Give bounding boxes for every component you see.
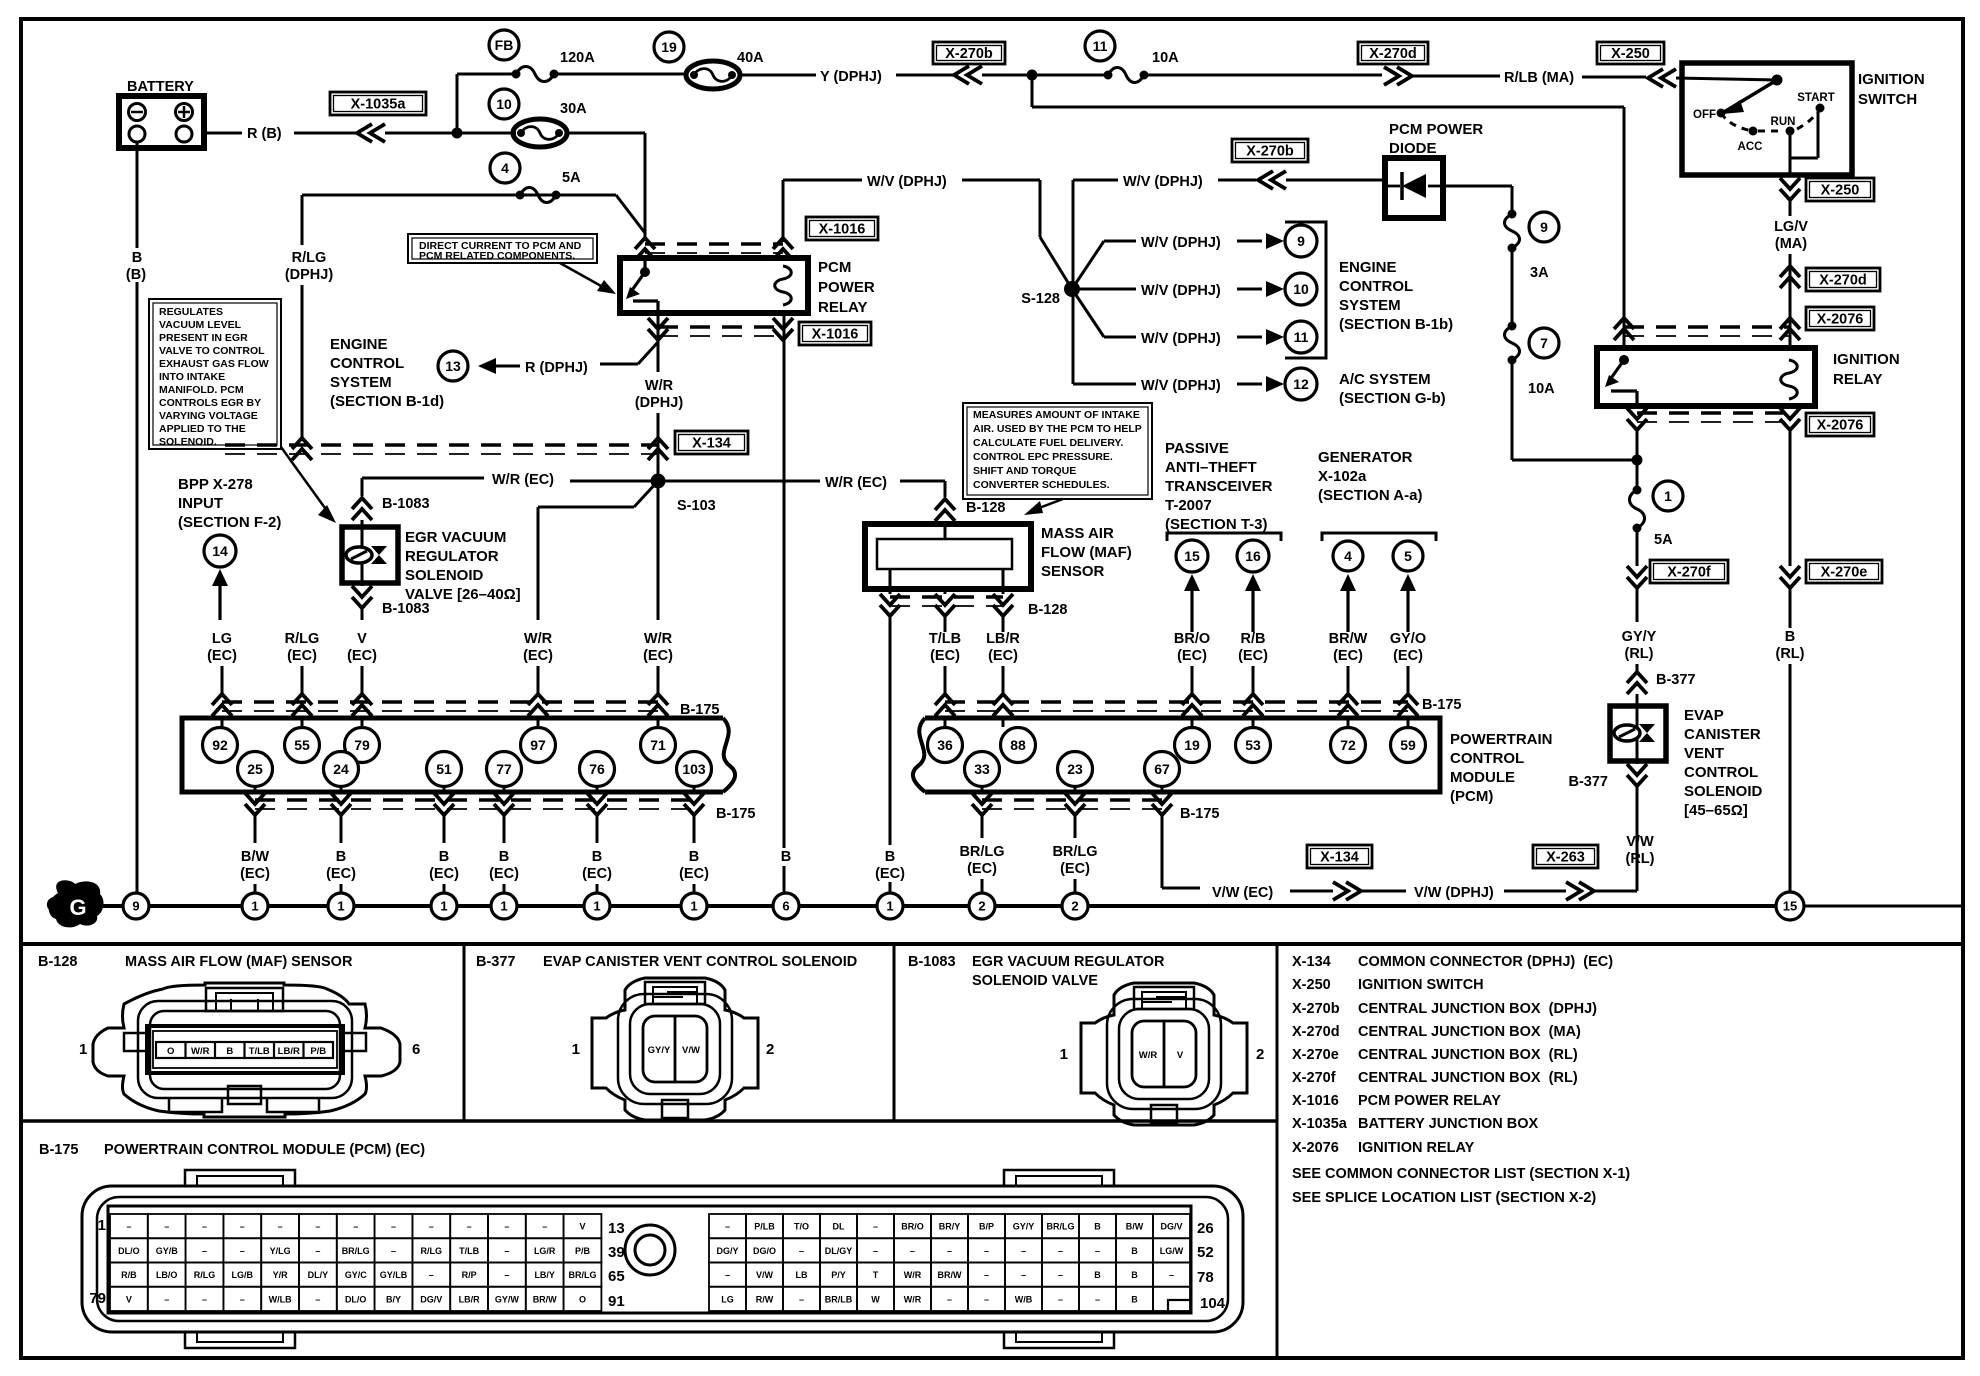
svg-text:33: 33 (974, 761, 990, 777)
wire label B (EC) at 504 (489, 849, 519, 882)
svg-text:(SECTION F-2): (SECTION F-2) (178, 514, 281, 531)
svg-text:GENERATOR: GENERATOR (1318, 449, 1413, 466)
svg-text:POWER: POWER (818, 279, 875, 296)
B-128 panel header (38, 954, 353, 970)
wire evap out (1569, 761, 1648, 828)
S-128 branch to 11 (1072, 289, 1317, 353)
svg-text:BR/W: BR/W (1329, 631, 1368, 647)
pin 92 (203, 728, 238, 763)
wire R (B) (204, 124, 516, 142)
svg-text:CENTRAL JUNCTION BOX (RL): CENTRAL JUNCTION BOX (RL) (1358, 1047, 1578, 1063)
wire out of B-175 at 597 (587, 787, 607, 843)
pin 23 (1058, 752, 1093, 787)
svg-text:LG/R: LG/R (534, 1246, 556, 1256)
svg-text:CANISTER: CANISTER (1684, 726, 1761, 743)
svg-text:–: – (240, 1222, 245, 1232)
wire label B (EC) at 444 (429, 849, 459, 882)
svg-text:ANTI–THEFT: ANTI–THEFT (1165, 459, 1257, 476)
svg-text:–: – (984, 1270, 989, 1280)
pin 19 (1175, 728, 1210, 763)
wire B coil to rail (783, 313, 786, 893)
svg-text:(EC): (EC) (1393, 648, 1423, 664)
wire label GY/O (EC) at 1408 (1390, 631, 1426, 664)
ignition relay dashed top (1614, 318, 1790, 340)
svg-text:(SECTION T-3): (SECTION T-3) (1165, 516, 1268, 533)
panel row divider (21, 1119, 1277, 1123)
pin 103 (677, 752, 712, 787)
svg-text:P/Y: P/Y (831, 1270, 846, 1280)
svg-text:W/R: W/R (904, 1270, 922, 1280)
svg-text:BR/W: BR/W (938, 1270, 962, 1280)
wire B RL (1776, 560, 1805, 893)
svg-text:10: 10 (496, 96, 512, 112)
svg-text:REGULATOR: REGULATOR (405, 548, 499, 565)
B-175 PCM right box (913, 718, 1440, 792)
wire label BR/LG at 1075 (1052, 844, 1097, 877)
svg-text:X-270f: X-270f (1292, 1070, 1336, 1086)
svg-text:FLOW (MAF): FLOW (MAF) (1041, 544, 1132, 561)
wire label W/R (EC) at 538 (523, 631, 553, 664)
svg-text:VACUUM LEVEL: VACUUM LEVEL (159, 319, 242, 331)
svg-text:MASS AIR: MASS AIR (1041, 525, 1114, 542)
svg-text:P/LB: P/LB (754, 1222, 775, 1232)
B-175 top-right dashed row (945, 697, 1462, 713)
wire into B-175 at 658 (648, 666, 668, 727)
svg-text:REGULATES: REGULATES (159, 306, 223, 318)
svg-text:B: B (689, 849, 699, 865)
svg-text:Y/LG: Y/LG (270, 1246, 291, 1256)
ground symbol G (47, 880, 104, 927)
svg-text:X-270e: X-270e (1292, 1047, 1339, 1063)
B-377 connector view (572, 978, 775, 1120)
svg-text:B-377: B-377 (1569, 774, 1609, 790)
wire to rail at 444 (443, 884, 446, 893)
svg-text:55: 55 (294, 737, 310, 753)
B-128 connector view (79, 983, 420, 1117)
generator text (1318, 449, 1422, 504)
svg-text:X-1016: X-1016 (819, 222, 866, 238)
svg-text:23: 23 (1067, 761, 1083, 777)
svg-text:B-175: B-175 (1422, 697, 1462, 713)
svg-text:53: 53 (1245, 737, 1261, 753)
connector label X-134 right (1307, 845, 1372, 868)
svg-text:W/B: W/B (1015, 1294, 1033, 1304)
svg-text:X-2076: X-2076 (1817, 312, 1864, 328)
svg-text:–: – (202, 1294, 207, 1304)
svg-text:T/LB: T/LB (459, 1246, 479, 1256)
wire into B-175 at 362 (352, 666, 372, 727)
connector label X-1016 lower (799, 322, 871, 345)
pin 79 (345, 728, 380, 763)
svg-text:APPLIED TO THE: APPLIED TO THE (159, 423, 246, 435)
wire W/V (DPHJ) left (783, 174, 1072, 289)
svg-text:–: – (202, 1246, 207, 1256)
pin 72 (1331, 728, 1366, 763)
wire GY/O (1400, 574, 1416, 632)
engine control system text (1339, 259, 1453, 333)
wire into B-175 at 1003 (993, 666, 1013, 727)
ignition relay dashed bottom (1637, 413, 1790, 422)
svg-text:X-270d: X-270d (1369, 46, 1417, 62)
svg-text:PCM POWER RELAY: PCM POWER RELAY (1358, 1093, 1501, 1109)
wire R/LG (DPHJ) drop (285, 195, 334, 440)
svg-text:W/R (EC): W/R (EC) (825, 475, 887, 491)
connector label X-270d (1358, 42, 1428, 64)
svg-text:X-270f: X-270f (1667, 565, 1711, 581)
svg-text:X-102a: X-102a (1318, 468, 1367, 485)
svg-text:RELAY: RELAY (1833, 371, 1882, 388)
svg-text:GY/LB: GY/LB (380, 1270, 408, 1280)
wire into B-175 at 1408 (1398, 666, 1418, 727)
svg-text:–: – (353, 1222, 358, 1232)
wire label V/W RL (1626, 834, 1655, 867)
wire EGR top (352, 478, 430, 527)
svg-text:DL/Y: DL/Y (308, 1270, 329, 1280)
fuse 9 3A (1504, 210, 1559, 327)
svg-text:V/W: V/W (682, 1045, 700, 1056)
pin 51 (427, 752, 462, 787)
svg-text:X-1016: X-1016 (812, 327, 859, 343)
svg-text:S-128: S-128 (1021, 291, 1060, 307)
svg-text:–: – (725, 1270, 730, 1280)
svg-text:–: – (429, 1270, 434, 1280)
svg-text:–: – (164, 1294, 169, 1304)
svg-text:W/R: W/R (524, 631, 553, 647)
B-128 connector in (935, 499, 1006, 527)
wire label LG/V (MA) (1774, 219, 1808, 348)
svg-text:START: START (1797, 92, 1834, 104)
svg-text:LG: LG (721, 1294, 734, 1304)
svg-text:CONTROLS EGR BY: CONTROLS EGR BY (159, 397, 261, 409)
svg-text:9: 9 (132, 899, 139, 914)
svg-text:V: V (126, 1294, 132, 1304)
svg-text:–: – (947, 1246, 952, 1256)
svg-text:DG/V: DG/V (420, 1294, 442, 1304)
wire out of B-175 right at 1162 (1152, 787, 1172, 838)
svg-text:–: – (1095, 1294, 1100, 1304)
svg-text:65: 65 (608, 1268, 625, 1285)
svg-text:B: B (336, 849, 346, 865)
svg-text:W/R: W/R (1139, 1050, 1158, 1061)
S-128 branch to 9 (1072, 225, 1317, 289)
wire label BR/O (EC) at 1192 (1174, 631, 1210, 664)
svg-text:(EC): (EC) (1333, 648, 1363, 664)
svg-text:W/V (DPHJ): W/V (DPHJ) (1141, 331, 1221, 347)
svg-text:MODULE: MODULE (1450, 769, 1515, 786)
panel divider 2 (893, 944, 896, 1121)
svg-text:W/R (EC): W/R (EC) (492, 472, 554, 488)
svg-text:ACC: ACC (1738, 141, 1763, 153)
wire label T/LB (EC) at 945 (929, 631, 961, 664)
direct current note box (408, 234, 597, 263)
svg-text:6: 6 (782, 899, 789, 914)
svg-text:1: 1 (572, 1041, 580, 1058)
svg-text:V/W (DPHJ): V/W (DPHJ) (1414, 885, 1494, 901)
splice S-128 (1021, 180, 1080, 384)
svg-text:P/B: P/B (310, 1046, 326, 1057)
svg-text:EGR VACUUM: EGR VACUUM (405, 529, 506, 546)
svg-text:IGNITION SWITCH: IGNITION SWITCH (1358, 977, 1484, 993)
panel divider 3 (1276, 944, 1279, 1358)
svg-text:DL/O: DL/O (345, 1294, 367, 1304)
svg-text:(EC): (EC) (1238, 648, 1268, 664)
svg-text:PCM: PCM (818, 259, 851, 276)
svg-text:P/B: P/B (575, 1246, 591, 1256)
mass air flow sensor box (865, 524, 1132, 589)
wire BR/LG to rail at 1075 (1074, 879, 1077, 893)
svg-text:T/O: T/O (794, 1222, 809, 1232)
svg-text:SENSOR: SENSOR (1041, 563, 1105, 580)
rail node 1 at 444 (431, 893, 457, 919)
direct current arrow (560, 263, 616, 294)
powertrain text (1450, 731, 1553, 805)
rail node 2 at 982 (969, 893, 995, 919)
svg-text:–: – (1021, 1270, 1026, 1280)
svg-text:BR/Y: BR/Y (939, 1222, 961, 1232)
svg-text:B/P: B/P (979, 1222, 994, 1232)
svg-text:(EC): (EC) (287, 648, 317, 664)
wire label LG (EC) at 222 (207, 631, 237, 664)
pin 24 (324, 752, 359, 787)
connector label X-134 (675, 431, 748, 454)
wire W/R DPHJ below junction (657, 481, 660, 620)
svg-text:B: B (1131, 1270, 1138, 1280)
svg-text:19: 19 (1184, 737, 1200, 753)
svg-text:EVAP: EVAP (1684, 707, 1724, 724)
a/c system text (1339, 371, 1446, 407)
svg-text:(EC): (EC) (240, 866, 270, 882)
svg-text:SOLENOID VALVE: SOLENOID VALVE (972, 973, 1098, 989)
svg-text:SEE COMMON CONNECTOR LIST (SEC: SEE COMMON CONNECTOR LIST (SECTION X-1) (1292, 1166, 1630, 1182)
svg-text:IGNITION: IGNITION (1858, 71, 1925, 88)
panel divider 1 (463, 944, 466, 1121)
svg-text:X-263: X-263 (1546, 850, 1585, 866)
svg-text:2: 2 (978, 899, 985, 914)
svg-text:SOLENOID.: SOLENOID. (159, 436, 217, 448)
svg-text:LG/B: LG/B (232, 1270, 254, 1280)
wire to ignition relay coil (1032, 75, 1624, 348)
svg-text:GY/Y: GY/Y (1013, 1222, 1035, 1232)
svg-text:PASSIVE: PASSIVE (1165, 440, 1229, 457)
svg-text:–: – (873, 1222, 878, 1232)
circle 15 PAT (1176, 540, 1208, 572)
connector label X-1016 upper (806, 217, 878, 240)
B-175 right pin grid (709, 1214, 1190, 1311)
connector label X-270f (1650, 560, 1728, 583)
svg-text:DL: DL (833, 1222, 845, 1232)
svg-text:–: – (315, 1246, 320, 1256)
svg-text:19: 19 (661, 39, 677, 55)
svg-text:–: – (1058, 1270, 1063, 1280)
svg-text:EXHAUST GAS FLOW: EXHAUST GAS FLOW (159, 358, 269, 370)
wire label V (EC) at 362 (347, 631, 377, 664)
EGR text (405, 529, 521, 603)
svg-text:CONTROL EPC PRESSURE.: CONTROL EPC PRESSURE. (973, 451, 1113, 463)
svg-text:B-377: B-377 (1656, 672, 1696, 688)
EGR vacuum regulator solenoid valve (342, 527, 398, 583)
svg-text:3A: 3A (1530, 265, 1549, 281)
PAT bracket (1167, 533, 1281, 541)
regulates note box (149, 299, 281, 449)
X-134 dashed row (225, 438, 658, 460)
bracket engine control (1285, 222, 1326, 358)
svg-text:4: 4 (1344, 548, 1352, 564)
svg-text:RUN: RUN (1771, 116, 1796, 128)
svg-text:R/LG: R/LG (285, 631, 320, 647)
svg-text:COMMON CONNECTOR (DPHJ) (EC): COMMON CONNECTOR (DPHJ) (EC) (1358, 954, 1613, 970)
svg-text:B-128: B-128 (1028, 602, 1068, 618)
svg-text:IGNITION RELAY: IGNITION RELAY (1358, 1140, 1475, 1156)
svg-text:TRANSCEIVER: TRANSCEIVER (1165, 478, 1273, 495)
svg-text:R/B: R/B (121, 1270, 137, 1280)
wire into B-175 at 538 (528, 666, 548, 727)
svg-text:GY/Y: GY/Y (648, 1045, 671, 1056)
svg-text:V: V (579, 1222, 585, 1232)
fuse 10 30A (489, 89, 645, 147)
B-128 connector out (880, 589, 1068, 893)
svg-text:X-2076: X-2076 (1817, 418, 1864, 434)
passive anti-theft text (1165, 440, 1273, 533)
svg-text:B/W: B/W (241, 849, 270, 865)
svg-text:(SECTION A-a): (SECTION A-a) (1318, 487, 1422, 504)
B-175 grid tabs (185, 1170, 1114, 1348)
svg-text:X-134: X-134 (1320, 850, 1359, 866)
svg-text:B: B (1131, 1294, 1138, 1304)
svg-text:4: 4 (501, 160, 509, 176)
rail node 1 at 597 (584, 893, 610, 919)
svg-text:–: – (725, 1222, 730, 1232)
wire out of B-175 right at 1075 (1065, 787, 1085, 838)
rail node 2 at 1075 (1062, 893, 1088, 919)
svg-text:(EC): (EC) (1177, 648, 1207, 664)
pin 25 (238, 752, 273, 787)
svg-text:(SECTION B-1d): (SECTION B-1d) (330, 393, 444, 410)
svg-text:B: B (1094, 1270, 1101, 1280)
evap text (1684, 707, 1763, 819)
svg-text:9: 9 (1297, 233, 1305, 249)
connector label X-2076 lower (1806, 413, 1874, 436)
svg-text:(EC): (EC) (930, 648, 960, 664)
wire label B (EC) at 597 (582, 849, 612, 882)
splice S-103 (651, 474, 716, 515)
svg-text:5A: 5A (1654, 532, 1673, 548)
fuse 7 10A (1504, 322, 1559, 461)
svg-text:V/W (EC): V/W (EC) (1212, 885, 1273, 901)
rail node 1 at 341 (328, 893, 354, 919)
svg-text:LB: LB (796, 1270, 808, 1280)
fuse FB 120A (489, 30, 688, 82)
svg-text:(EC): (EC) (967, 861, 997, 877)
svg-text:W/R: W/R (191, 1046, 210, 1057)
svg-text:2: 2 (766, 1041, 774, 1058)
ignition switch output LG/V (1780, 158, 1800, 216)
svg-text:X-270b: X-270b (1246, 144, 1294, 160)
svg-text:SYSTEM: SYSTEM (1339, 297, 1401, 314)
svg-text:52: 52 (1197, 1244, 1214, 1261)
rail node 1 at 694 (681, 893, 707, 919)
svg-text:BR/LG: BR/LG (569, 1270, 597, 1280)
wire label GY/Y RL (1622, 629, 1657, 662)
bottom panel top border (21, 942, 1963, 946)
B-128 pin cells (156, 1042, 333, 1058)
svg-text:30A: 30A (560, 101, 587, 117)
wire out of B-175 at 504 (494, 787, 514, 843)
svg-text:O: O (579, 1294, 586, 1304)
svg-text:7: 7 (1540, 335, 1548, 351)
svg-text:B: B (132, 250, 142, 266)
svg-text:CENTRAL JUNCTION BOX (DPHJ): CENTRAL JUNCTION BOX (DPHJ) (1358, 1001, 1597, 1017)
svg-text:5A: 5A (562, 170, 581, 186)
svg-text:X-134: X-134 (692, 436, 731, 452)
svg-text:(RL): (RL) (1625, 646, 1654, 662)
wire label BR/W (EC) at 1348 (1329, 631, 1368, 664)
svg-text:77: 77 (496, 761, 512, 777)
svg-text:(EC): (EC) (582, 866, 612, 882)
wire W/R EC right (658, 475, 945, 497)
svg-text:26: 26 (1197, 1220, 1214, 1237)
svg-text:–: – (1169, 1270, 1174, 1280)
svg-text:O: O (167, 1046, 174, 1057)
svg-text:AIR. USED BY THE PCM TO HELP: AIR. USED BY THE PCM TO HELP (973, 423, 1142, 435)
svg-text:POWERTRAIN: POWERTRAIN (1450, 731, 1553, 748)
wire out of B-175 at 341 (331, 787, 351, 843)
svg-text:CENTRAL JUNCTION BOX (MA): CENTRAL JUNCTION BOX (MA) (1358, 1024, 1581, 1040)
svg-text:B: B (226, 1046, 233, 1057)
wire from junction up to 120A rail (457, 74, 516, 133)
svg-text:B: B (885, 849, 895, 865)
engine control B-1d text (330, 336, 444, 410)
svg-text:V/W: V/W (756, 1270, 774, 1280)
svg-text:16: 16 (1245, 548, 1261, 564)
svg-text:PCM POWER: PCM POWER (1389, 121, 1483, 138)
svg-text:CENTRAL JUNCTION BOX (RL): CENTRAL JUNCTION BOX (RL) (1358, 1070, 1578, 1086)
svg-text:R/LG: R/LG (421, 1246, 443, 1256)
connector label X-2076 upper (1806, 307, 1874, 330)
svg-text:B/W: B/W (1126, 1222, 1144, 1232)
svg-text:VALVE TO CONTROL: VALVE TO CONTROL (159, 345, 265, 357)
rail node 15 (1776, 892, 1804, 920)
wire to rail at 504 (503, 884, 506, 893)
rail to border (1790, 905, 1961, 908)
svg-text:–: – (1169, 1294, 1174, 1304)
svg-text:13: 13 (608, 1220, 625, 1237)
svg-text:6: 6 (412, 1041, 420, 1058)
svg-text:X-1035a: X-1035a (351, 97, 407, 113)
wire to rail at 341 (340, 884, 343, 893)
wire into B-175 at 1253 (1243, 666, 1263, 727)
svg-text:X-2076: X-2076 (1292, 1140, 1339, 1156)
B-175 pin field (108, 1206, 1191, 1313)
svg-text:72: 72 (1340, 737, 1356, 753)
wire into B-175 at 1348 (1338, 666, 1358, 727)
svg-text:(EC): (EC) (326, 866, 356, 882)
wire label B coil (781, 849, 791, 865)
svg-text:1: 1 (690, 899, 697, 914)
svg-text:76: 76 (589, 761, 605, 777)
svg-text:LG/W: LG/W (1160, 1246, 1184, 1256)
svg-text:LB/R: LB/R (278, 1046, 300, 1057)
circle 4 gen (1333, 541, 1363, 571)
svg-text:CONTROL: CONTROL (1450, 750, 1524, 767)
svg-text:LB/O: LB/O (156, 1270, 178, 1280)
wire label R/B (EC) at 1253 (1238, 631, 1268, 664)
svg-text:9: 9 (1540, 219, 1548, 235)
svg-text:71: 71 (650, 737, 666, 753)
svg-text:W/R: W/R (904, 1294, 922, 1304)
svg-text:LB/R: LB/R (986, 631, 1020, 647)
svg-text:25: 25 (247, 761, 263, 777)
svg-text:B-377: B-377 (476, 954, 516, 970)
